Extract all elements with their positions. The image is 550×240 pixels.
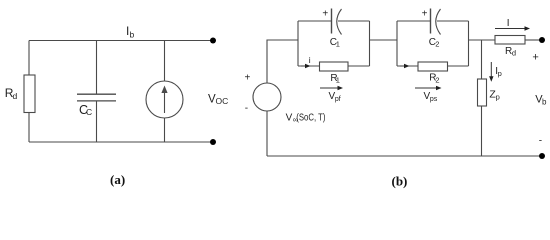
wire: main rail block 2 to Rd	[469, 39, 496, 41]
wire: link between block 1 and block 2	[370, 39, 398, 41]
svg-text:d: d	[13, 91, 18, 101]
svg-text:ps: ps	[430, 96, 438, 103]
current source circle (circuit a)	[146, 81, 183, 118]
wire: circuit (b) source top lead	[267, 40, 298, 83]
svg-text:(b): (b)	[392, 174, 408, 189]
current source arrow shaft	[164, 89, 166, 113]
svg-text:i: i	[309, 55, 311, 65]
wire: circuit (b) bottom rail	[267, 155, 540, 157]
wire: current source top lead	[164, 41, 166, 82]
capacitor C2 straight plate	[430, 9, 432, 34]
wire: circuit (a) bottom rail	[29, 141, 211, 143]
wire: block 1 bottom edge right segment	[348, 65, 370, 67]
svg-text:(SoC, T): (SoC, T)	[296, 113, 325, 124]
wire: Zp branch lower lead	[481, 106, 483, 156]
resistor Rd (circuit a) body	[24, 75, 35, 113]
wire: current source bottom lead	[164, 118, 166, 142]
RC block 2 left edge	[396, 21, 398, 66]
svg-text:(a): (a)	[110, 172, 125, 187]
svg-text:V: V	[286, 113, 293, 124]
arrow: voltage Vpf reference	[320, 86, 343, 90]
wire: block 2 bottom edge left segment	[397, 65, 418, 67]
wire: block 2 top edge left segment	[397, 20, 431, 22]
capacitor Cc bottom plate	[77, 100, 116, 102]
node: circuit (a) positive terminal	[210, 38, 216, 44]
arrow: current i into R1	[301, 64, 311, 68]
svg-text:I: I	[507, 18, 510, 29]
svg-text:-: -	[245, 103, 248, 114]
arrow: current I at top right	[495, 26, 530, 30]
wire: block 2 bottom edge right segment	[448, 65, 469, 67]
wire: circuit (a) left branch upper	[28, 41, 30, 76]
svg-text:+: +	[245, 72, 251, 83]
svg-text:b: b	[542, 98, 547, 107]
capacitor C1 straight plate	[331, 9, 333, 34]
svg-text:-: -	[539, 136, 542, 147]
node: circuit (a) negative terminal	[210, 139, 216, 145]
resistor R2 body	[418, 62, 448, 71]
wire: capacitor Cc bottom lead	[96, 101, 98, 142]
wire: Rd to positive terminal	[525, 39, 540, 41]
wire: block 1 top edge left segment	[298, 20, 332, 22]
node: circuit (b) negative terminal	[539, 153, 545, 159]
arrow: current Ip down Zp branch	[489, 62, 493, 82]
RC block 1 left edge	[297, 21, 299, 66]
svg-text:+: +	[422, 9, 428, 20]
capacitor C1 curved plate	[337, 9, 342, 35]
wire: block 1 top edge right segment	[338, 20, 370, 22]
wire: circuit (a) top rail	[29, 40, 211, 42]
resistor R1 body	[320, 62, 349, 71]
wire: capacitor Cc top lead	[96, 41, 98, 95]
svg-text:2: 2	[435, 75, 439, 84]
svg-text:OC: OC	[216, 96, 229, 106]
svg-text:1: 1	[336, 40, 340, 49]
arrow: current into R2	[400, 64, 410, 68]
svg-text:d: d	[512, 49, 516, 58]
resistor Rd (circuit b) body	[495, 36, 525, 45]
svg-text:2: 2	[435, 40, 439, 49]
capacitor C2 curved plate	[436, 9, 441, 35]
svg-text:pf: pf	[335, 96, 341, 103]
node: circuit (b) positive terminal	[539, 37, 545, 43]
voltage source circle (circuit b)	[253, 83, 281, 111]
RC block 1 right edge	[369, 21, 371, 66]
svg-text:+: +	[322, 8, 328, 19]
RC block 2 right edge	[468, 21, 470, 66]
svg-text:b: b	[130, 30, 135, 40]
svg-text:p: p	[496, 93, 500, 102]
svg-text:p: p	[498, 69, 502, 78]
wire: circuit (b) source bottom lead	[266, 111, 268, 156]
wire: block 2 top edge right segment	[437, 20, 469, 22]
wire: Zp branch upper lead	[481, 40, 483, 79]
wire: circuit (a) left branch lower	[28, 113, 30, 143]
current source arrowhead	[161, 86, 167, 94]
svg-text:C: C	[86, 107, 92, 117]
capacitor Cc top plate	[77, 93, 116, 95]
wire: block 1 bottom edge left segment	[298, 65, 320, 67]
svg-text:+: +	[532, 51, 538, 63]
impedance Zp body	[478, 79, 487, 106]
svg-text:1: 1	[336, 76, 340, 85]
arrow: voltage Vps reference	[415, 86, 442, 90]
